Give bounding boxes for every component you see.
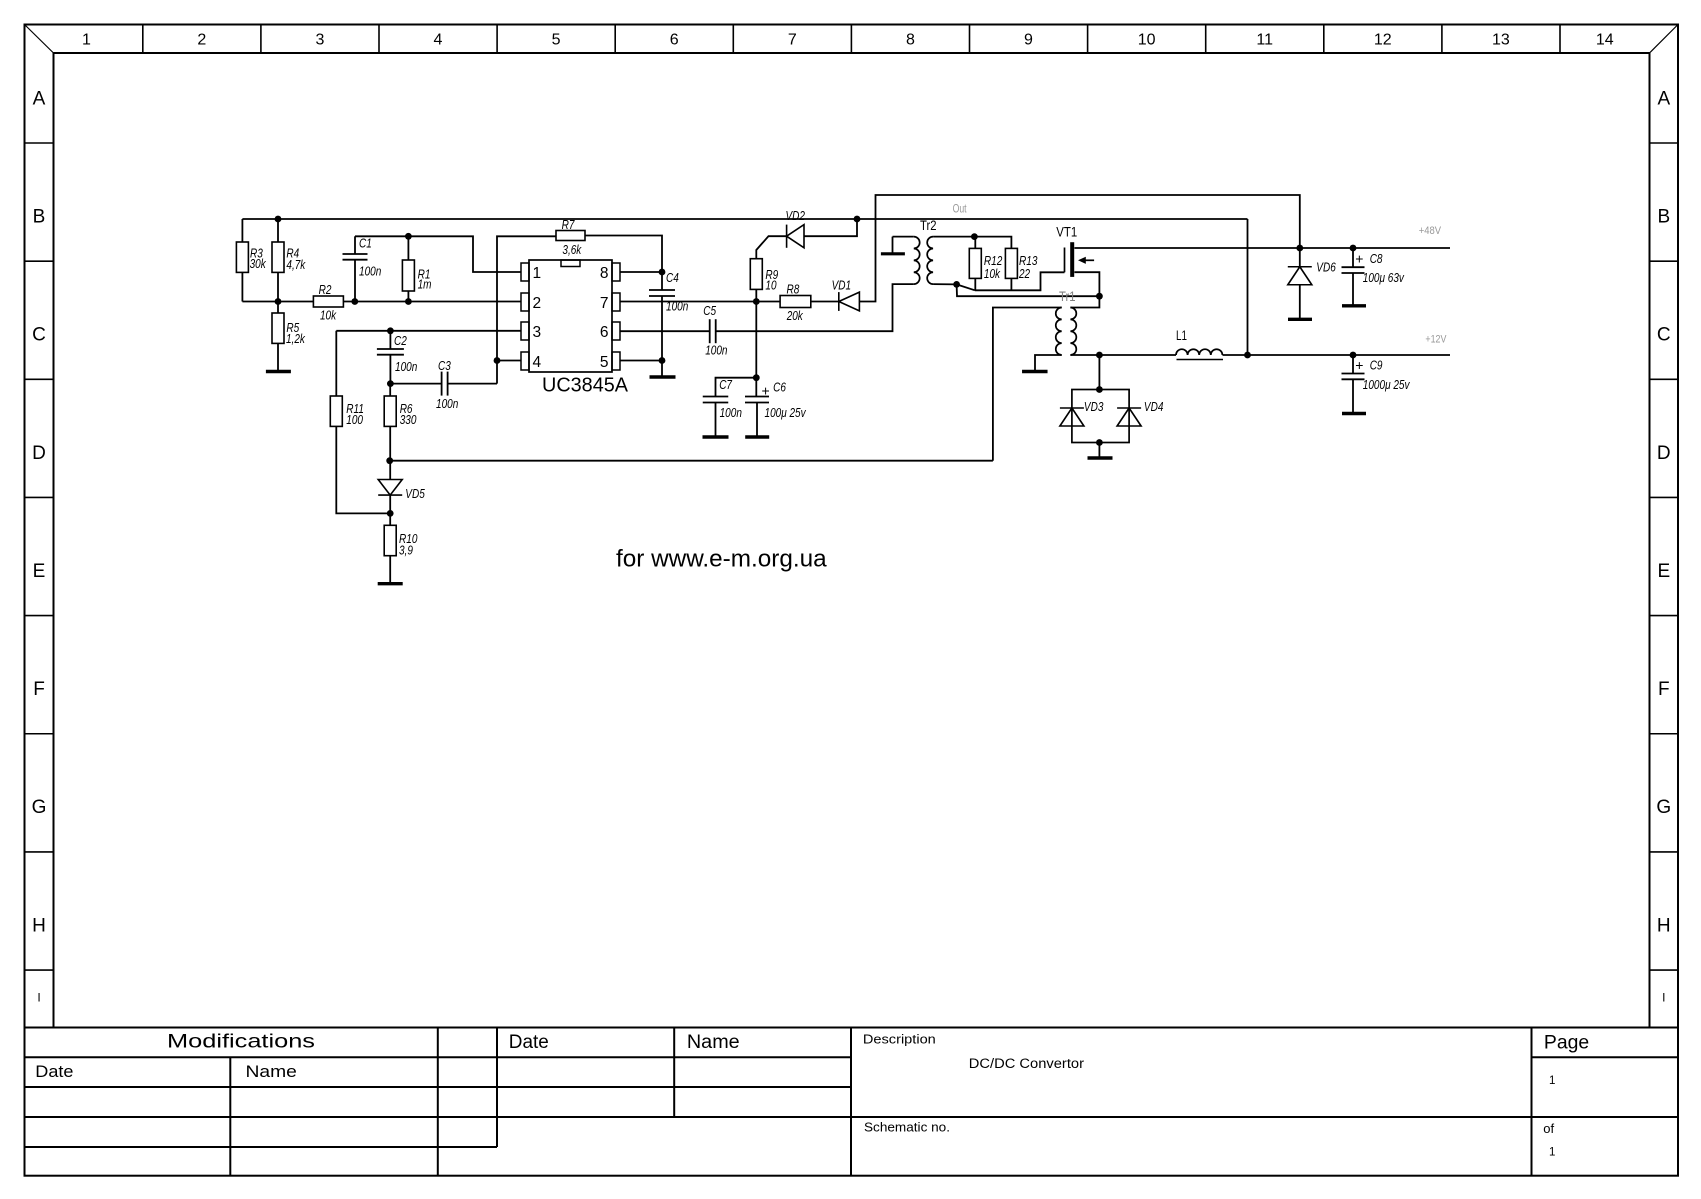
svg-text:100n: 100n (395, 359, 417, 374)
svg-text:100n: 100n (720, 405, 742, 420)
svg-text:E: E (1657, 561, 1670, 582)
svg-text:Date: Date (509, 1032, 549, 1053)
svg-text:I: I (1662, 991, 1665, 1005)
svg-text:20k: 20k (786, 308, 804, 323)
svg-text:C5: C5 (703, 303, 716, 318)
svg-text:Tr1: Tr1 (1059, 289, 1076, 304)
svg-text:VD3: VD3 (1084, 399, 1104, 414)
svg-text:4: 4 (434, 32, 443, 49)
svg-text:10: 10 (765, 277, 777, 292)
svg-text:C2: C2 (394, 333, 407, 348)
svg-text:Page: Page (1544, 1033, 1589, 1054)
svg-text:C7: C7 (719, 377, 732, 392)
svg-text:13: 13 (1492, 32, 1510, 49)
svg-text:3,6k: 3,6k (562, 242, 582, 257)
svg-text:Date: Date (35, 1062, 73, 1081)
svg-text:DC/DC Convertor: DC/DC Convertor (969, 1056, 1085, 1071)
svg-text:1: 1 (533, 265, 542, 282)
svg-text:8: 8 (906, 32, 915, 49)
svg-text:14: 14 (1596, 32, 1614, 49)
svg-text:30k: 30k (250, 256, 267, 271)
svg-text:D: D (32, 443, 46, 464)
svg-text:9: 9 (1024, 32, 1033, 49)
svg-text:100n: 100n (666, 298, 688, 313)
svg-text:L1: L1 (1176, 328, 1187, 343)
svg-text:Modifications: Modifications (167, 1031, 315, 1053)
svg-text:B: B (33, 206, 46, 227)
svg-text:A: A (1657, 88, 1670, 109)
svg-text:100μ 63v: 100μ 63v (1363, 270, 1405, 285)
svg-text:F: F (1658, 679, 1670, 700)
svg-text:Name: Name (687, 1032, 740, 1053)
svg-text:10: 10 (1138, 32, 1156, 49)
svg-text:1,2k: 1,2k (286, 331, 306, 346)
svg-text:+: + (1355, 251, 1363, 267)
svg-text:100n: 100n (359, 264, 381, 279)
svg-text:Name: Name (246, 1062, 297, 1081)
svg-text:C9: C9 (1370, 357, 1383, 372)
svg-text:22: 22 (1018, 266, 1030, 281)
svg-text:VD6: VD6 (1316, 259, 1336, 274)
svg-text:C: C (32, 325, 46, 346)
svg-text:of: of (1543, 1121, 1554, 1136)
svg-text:C8: C8 (1370, 251, 1383, 266)
svg-text:A: A (33, 88, 46, 109)
svg-text:VD4: VD4 (1144, 399, 1164, 414)
svg-text:1: 1 (1549, 1147, 1555, 1159)
svg-text:C: C (1657, 325, 1671, 346)
svg-text:I: I (37, 991, 40, 1005)
svg-text:12: 12 (1374, 32, 1392, 49)
svg-text:+: + (1355, 357, 1363, 373)
svg-text:VD2: VD2 (786, 208, 806, 223)
svg-text:7: 7 (600, 295, 609, 312)
svg-text:3: 3 (533, 324, 542, 341)
svg-text:4: 4 (533, 354, 542, 371)
svg-text:3,9: 3,9 (399, 543, 413, 558)
svg-text:H: H (32, 915, 46, 936)
svg-text:100n: 100n (705, 342, 727, 357)
svg-text:100n: 100n (436, 396, 458, 411)
svg-text:Description: Description (863, 1032, 936, 1047)
svg-text:8: 8 (600, 265, 609, 282)
svg-text:C3: C3 (438, 358, 451, 373)
svg-text:100: 100 (346, 412, 363, 427)
svg-text:G: G (1656, 797, 1671, 818)
svg-text:11: 11 (1256, 32, 1273, 49)
svg-text:7: 7 (788, 32, 797, 49)
svg-text:C4: C4 (666, 270, 679, 285)
svg-text:VT1: VT1 (1056, 225, 1077, 240)
svg-text:6: 6 (670, 32, 679, 49)
svg-text:+12V: +12V (1425, 333, 1447, 345)
svg-text:for www.e-m.org.ua: for www.e-m.org.ua (616, 546, 827, 573)
svg-text:E: E (33, 561, 46, 582)
svg-text:Schematic no.: Schematic no. (864, 1120, 950, 1135)
svg-text:R8: R8 (787, 282, 800, 297)
svg-text:6: 6 (600, 324, 609, 341)
svg-text:C1: C1 (359, 236, 372, 251)
svg-text:VD5: VD5 (405, 486, 425, 501)
svg-text:10k: 10k (320, 308, 337, 323)
svg-text:1m: 1m (418, 277, 432, 292)
svg-text:B: B (1657, 206, 1670, 227)
svg-text:VD1: VD1 (832, 278, 852, 293)
svg-text:5: 5 (552, 32, 561, 49)
svg-text:Tr2: Tr2 (920, 218, 937, 233)
svg-text:Out: Out (953, 204, 968, 216)
svg-text:10k: 10k (984, 266, 1001, 281)
svg-text:R2: R2 (319, 282, 332, 297)
svg-text:C6: C6 (773, 380, 786, 395)
svg-text:R7: R7 (562, 217, 575, 232)
svg-text:1: 1 (82, 32, 91, 49)
svg-text:2: 2 (533, 295, 542, 312)
svg-text:5: 5 (600, 354, 609, 371)
svg-text:330: 330 (400, 412, 417, 427)
svg-text:1: 1 (1549, 1075, 1555, 1087)
svg-text:+48V: +48V (1419, 225, 1442, 237)
svg-text:+: + (762, 382, 770, 398)
svg-text:2: 2 (197, 32, 206, 49)
svg-text:4,7k: 4,7k (286, 257, 306, 272)
svg-text:F: F (33, 679, 45, 700)
svg-text:1000μ 25v: 1000μ 25v (1363, 377, 1411, 392)
svg-text:H: H (1657, 915, 1671, 936)
svg-text:3: 3 (315, 32, 324, 49)
svg-text:100μ 25v: 100μ 25v (765, 405, 807, 420)
svg-text:UC3845A: UC3845A (542, 375, 629, 397)
svg-text:D: D (1657, 443, 1671, 464)
svg-text:G: G (32, 797, 47, 818)
